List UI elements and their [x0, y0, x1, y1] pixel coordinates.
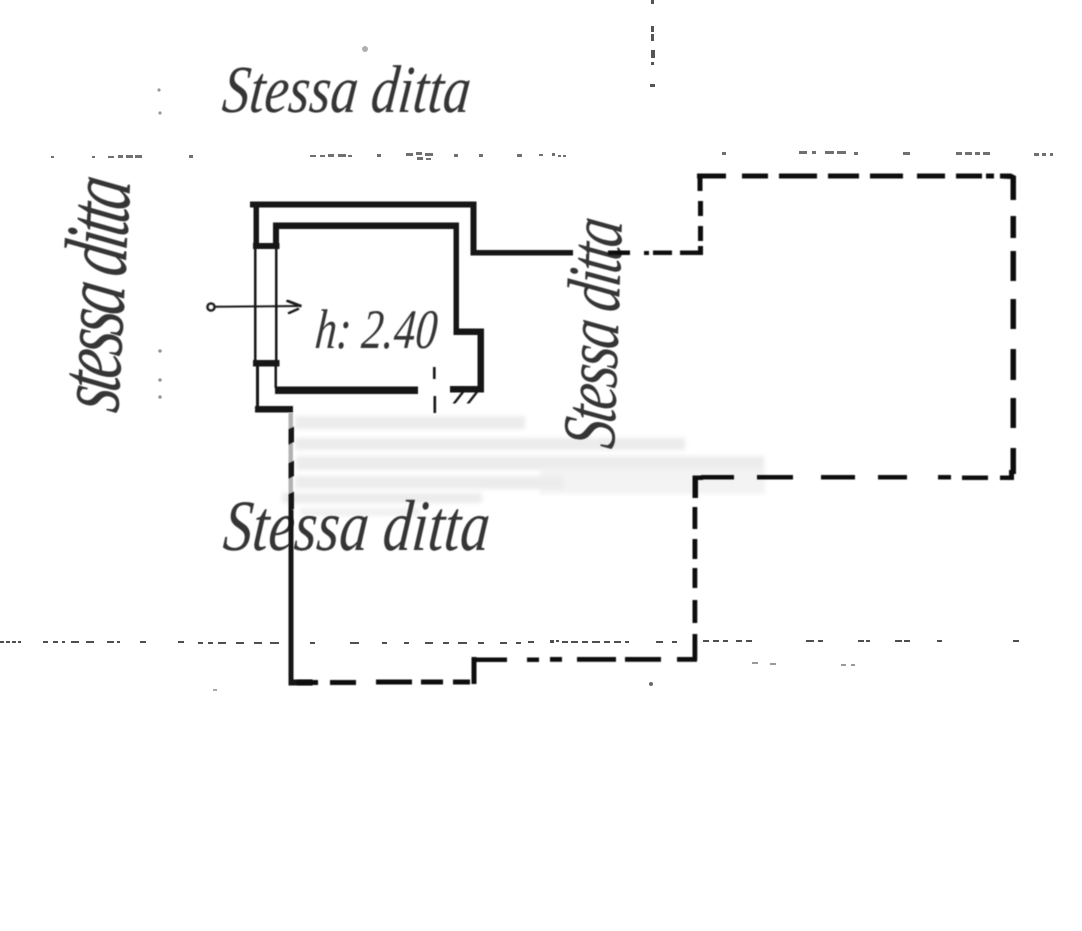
wall: outer top — [250, 202, 477, 208]
boundary: right dashed line (x~1013) — [1011, 216, 1017, 238]
boundary: SE corner piece — [1000, 470, 1014, 480]
svg-text:stessa ditta: stessa ditta — [39, 171, 150, 417]
party wall foot — [289, 680, 313, 686]
wall: outer left lower thin — [256, 366, 259, 408]
stray specks — [157, 46, 855, 691]
wall: niche top horizontal — [454, 329, 484, 336]
wall: inner left lower thin — [275, 366, 278, 388]
door threshold dashed (x~434) — [433, 367, 436, 379]
boundary: vertical dashed (x~695) — [693, 507, 698, 529]
text: Stessa ditta (middle, rotated) — [549, 214, 639, 453]
faint vertical dotted line top (x~652) — [650, 0, 655, 87]
wall: niche right vertical — [478, 329, 485, 393]
boundary: dash-dot from spur to NE corner (y~253) — [608, 251, 630, 256]
boundary: bottom dashed segment left (y~682) — [453, 680, 470, 685]
svg-text:h: 2.40: h: 2.40 — [313, 298, 440, 361]
faint dotted reference line (lower, y~642) — [0, 640, 1019, 644]
wall: outer left upper thick — [254, 202, 260, 249]
svg-text:Stessa ditta: Stessa ditta — [549, 214, 639, 453]
text: Stessa ditta (bottom) — [221, 486, 494, 566]
wall: bottom-right stub — [450, 386, 484, 393]
text: Stessa ditta (top) — [219, 53, 474, 128]
boundary: small step down at x~474 — [472, 657, 477, 684]
wall: inner bottom — [275, 387, 418, 395]
wall: bottom-left corner stub — [255, 406, 293, 413]
wall: inner left upper thick — [273, 223, 279, 249]
boundary: bottom dashed segment right (y~659) — [677, 657, 697, 662]
boundary: lower horizontal dashed (y~477.5) — [962, 476, 988, 481]
svg-text:Stessa ditta: Stessa ditta — [219, 53, 474, 128]
boundary: vertical rise at x~700 — [698, 176, 703, 191]
boundary: top dashed line (y~176) — [697, 174, 726, 179]
scan grey streaks — [282, 416, 765, 516]
door hatch tick 1 — [453, 392, 465, 404]
boundary: NE corner piece — [1000, 174, 1016, 201]
text: h = 2.40 room height — [313, 298, 440, 361]
svg-text:Stessa ditta: Stessa ditta — [221, 486, 494, 566]
wall: exterior spur solid (to boundary) — [471, 250, 574, 256]
wall: inner top — [274, 223, 459, 230]
door hatch tick 2 — [467, 392, 479, 404]
entrance arrow — [207, 301, 301, 314]
window sill tick lower — [253, 360, 280, 367]
party wall long vertical line (grey upper with black hatch dashes) — [289, 413, 294, 513]
window sill tick upper — [253, 243, 280, 249]
window jamb outer thin — [254, 249, 257, 363]
window jamb inner thin — [275, 249, 278, 363]
wall: inner right — [454, 223, 460, 336]
faint dotted reference line (upper, y~157) — [51, 151, 1053, 160]
text: stessa ditta (left, rotated) — [39, 171, 150, 417]
wall: outer right — [471, 202, 477, 256]
boundary: inner step corner at x~695 — [693, 476, 704, 499]
